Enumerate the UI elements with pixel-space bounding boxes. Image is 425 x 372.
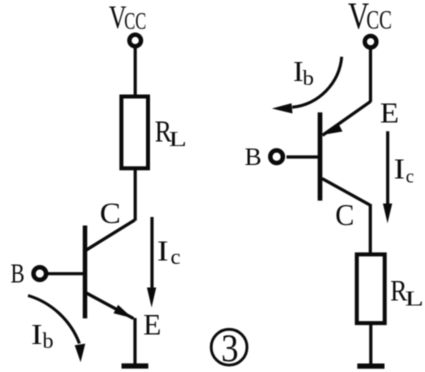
svg-text:3: 3: [221, 327, 238, 370]
svg-text:B: B: [245, 142, 262, 171]
svg-text:c: c: [406, 168, 414, 188]
svg-text:C: C: [335, 197, 354, 232]
svg-text:I: I: [31, 320, 43, 351]
svg-text:C: C: [100, 197, 121, 230]
svg-text:E: E: [143, 310, 161, 342]
svg-text:b: b: [43, 328, 54, 353]
svg-text:L: L: [405, 287, 424, 311]
svg-text:b: b: [303, 66, 314, 90]
svg-text:E: E: [380, 98, 399, 130]
svg-text:L: L: [169, 127, 187, 151]
svg-text:c: c: [171, 244, 181, 269]
svg-text:I: I: [394, 155, 405, 186]
svg-text:CC: CC: [366, 6, 392, 35]
svg-text:B: B: [11, 258, 25, 289]
svg-text:CC: CC: [124, 9, 146, 35]
svg-text:I: I: [157, 235, 169, 267]
